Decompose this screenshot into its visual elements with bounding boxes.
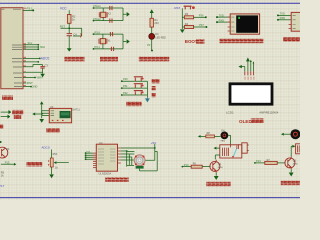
OLED SCL/SDA wires [245,61,254,72]
svg-text:BOOT: BOOT [185,39,198,44]
wire RV1 to ground [51,167,53,174]
wire: U1 RST pin [23,81,33,85]
capacitor C2 on rail [110,19,112,23]
wire buzzer arrow left [284,133,291,135]
label 串口2接口（ (red) [283,37,300,42]
U2 left pin stubs [93,153,96,168]
button K1 [134,77,144,81]
svg-text:8050: 8050 [293,163,299,165]
wire Q3 emitter to ground [290,169,292,172]
wire group B: U1 pins with net label (blue) [23,57,50,63]
capacitor C5 on rail [110,32,112,36]
transistor Q3 [285,156,299,169]
svg-text:RXD: RXD [219,18,225,22]
LED D1 [149,32,166,39]
capacitor C1 on rail [110,6,112,10]
svg-text:R3: R3 [185,12,189,16]
U1 pin numbers (red) [24,8,26,85]
fan branch: left arrow terminal [198,135,206,138]
sheet border top [0,3,300,4]
green dot at left edge [0,141,2,143]
virtual terminal 2 (right edge, cut) [289,12,304,31]
wire fan to relay contact [228,135,230,145]
svg-text:R4: R4 [185,22,189,26]
svg-text:LCD1: LCD1 [226,110,234,114]
label 独立按键 (red) [126,102,142,106]
node RST rail [60,24,82,36]
potentiometer RV1 [48,152,69,170]
wire R2 to RST rail [68,23,70,28]
ground (reset) [68,47,70,48]
OLED power arrow up [247,61,249,71]
microcontroller U1 [1,8,23,89]
OLED pin numbers (red) [244,77,254,79]
arrow to off-sheet 接下图 [1,110,24,114]
svg-text:AMPIRE128X64: AMPIRE128X64 [259,110,278,114]
capacitor C6 on rail [111,47,113,51]
svg-text:X2: X2 [108,12,112,16]
stepper motor M1 [134,155,145,166]
wire RXD to terminal 2 [277,16,291,21]
svg-text:VCC: VCC [60,7,67,11]
svg-text:240: 240 [154,21,159,25]
label 温湿度模块 (red) [46,128,60,132]
svg-text:P36: P36 [199,14,204,18]
svg-text:RV1: RV1 [53,152,59,156]
resistor R3 [184,12,193,19]
power arrow (relay 2 coil) [292,145,295,148]
wire P13 to base resistor [182,163,192,168]
crystal X2 [99,8,111,21]
power arrow (LED) [151,13,153,19]
svg-text:DHT11: DHT11 [72,108,80,111]
DHT11 wire bus [42,111,49,118]
wire Q1 base arrow [1,160,16,165]
relay RL2 (cut at edge) [296,144,302,154]
svg-text:TXD: TXD [280,12,285,16]
wire relay coil to Q2 collector [215,155,220,159]
svg-text:OLED: OLED [239,119,252,124]
label 四相步进电机 (red) [105,177,129,181]
resistor R6 [191,163,202,169]
svg-text:SCL: SCL [28,42,33,45]
resistor R4 [182,22,193,29]
U2 right pin stubs [118,148,121,163]
fan motor (black) [221,130,229,143]
svg-text:FAN: FAN [221,140,226,143]
svg-text:P2: P2 [147,43,151,47]
OLED pin stubs [245,71,254,75]
svg-text:P13: P13 [184,163,189,167]
svg-text:TXD: TXD [219,13,224,17]
label 复位电路 (red) [65,57,85,62]
wire key bus to ground [146,81,148,97]
DHT11 module U3 [49,105,80,123]
resistor R2 [67,14,75,23]
wire: U1 lower pins [23,76,43,89]
U2 input wires with labels [85,151,93,160]
wire TXD to terminal 2 [277,12,291,17]
stepper wiring loops [121,144,157,171]
virtual terminal 1 (serial, phone sim) [228,14,260,34]
crystal circuit 1 [93,4,127,21]
svg-text:+5V: +5V [151,141,156,145]
svg-text:P14: P14 [256,159,261,163]
svg-text:RST: RST [174,6,180,10]
OLED display LCD1 [229,82,274,105]
svg-text:P42: P42 [123,91,128,95]
button K3 [134,91,144,95]
transistor Q1 (fan speed, left edge) [0,147,10,158]
label 晶振电路 (red) [100,57,118,62]
svg-text:ULN2003A: ULN2003A [99,172,112,176]
wire R4 to P37 [194,23,208,28]
relay contact box [242,143,249,153]
wire TXD to terminal 1 [216,13,230,18]
svg-text:RST: RST [60,24,66,28]
wire: U1 top pin to net label [23,7,34,12]
label 减 (red) [151,93,155,97]
svg-text:C3: C3 [45,63,49,67]
svg-text:RXD: RXD [280,16,286,20]
wire VCC to R2 [68,10,70,14]
ground (DHT11) [39,119,44,123]
OLED left arrow (GND net) [242,66,245,68]
svg-text:VBAT: VBAT [36,76,43,80]
independent keys: key 3 row [121,91,148,96]
wire RXD to terminal 1 [216,18,230,23]
resistor R7 [265,159,277,165]
svg-text:P40: P40 [123,77,128,81]
independent keys: key 2 row [121,84,148,89]
crystal circuit 2 [93,30,127,49]
ground (Q2) [214,176,219,180]
ground (keys) [146,97,148,98]
label 主芯片 (red) [2,96,13,100]
label 串口1接口（模拟手机端） (red) [219,39,263,43]
wire D1 cathode down [147,39,153,51]
label 设置 (red) [151,79,159,83]
label 继电器(风扇) (red) [206,182,231,186]
svg-text:ADC0: ADC0 [41,57,50,61]
ground under C3 [42,72,44,74]
stepper motor base [136,166,144,169]
push button BOOT [184,6,195,9]
svg-text:P3.1: P3.1 [95,45,101,49]
red text fragment at left edge [0,125,3,129]
wire Q2 emitter to ground [215,173,217,176]
label 风速调节 (red) [26,162,42,166]
wire R3 to P36 [194,14,207,19]
DHT11 power arrow up [41,104,43,114]
sheet border bottom [0,197,300,198]
buzzer (black, right edge) [290,129,300,139]
independent keys: key 1 row [121,77,148,82]
node ADC0 (blue label) [42,146,52,158]
svg-text:C4: C4 [73,32,77,36]
label 加 (red) [151,86,155,90]
label 程序运行指示灯 (red) [139,57,170,62]
svg-text:P17: P17 [0,184,5,188]
svg-text:SDA: SDA [40,46,45,49]
resistor R1 [150,18,159,27]
resistor R8 [206,132,215,138]
wire group A: U1 pins P1 [23,42,45,50]
wire Q3 collector to relay 2 [291,146,295,156]
ground (RV1) [49,174,54,178]
svg-text:P41: P41 [123,84,128,88]
crystal X1 [99,34,111,49]
capacitor C3 loop on U1 pin [23,63,48,72]
ground (Q3) [289,173,294,177]
arrow to off-sheet 接上图 [1,115,22,119]
label 继电器(加湿) (red) [281,181,301,185]
svg-text:Q1: Q1 [6,147,10,151]
svg-text:RST: RST [27,81,33,85]
wire P14 to base resistor (relay 2) [254,159,265,164]
wire R6 to Q2 base [202,166,210,168]
power arrow (relay 1 coil) [216,147,220,149]
svg-text:8050: 8050 [218,167,224,169]
ground sideways (crystal 2) [127,39,130,44]
wire R7 to Q3 base [277,162,285,164]
ground sideways (crystal 1) [127,12,130,17]
svg-text:P37: P37 [199,23,204,27]
wire C4 to ground [68,36,70,47]
relay RL1 [220,144,242,158]
svg-text:LED-RED: LED-RED [155,36,166,39]
svg-text:P15: P15 [5,160,10,164]
label OLED显示屏 (red) [239,118,263,123]
capacitor C4 [67,32,82,37]
stepper driver U2 (ULN2003) [96,141,117,176]
label BOOT按键 (red) [185,39,205,44]
DHT11 left arrow [35,113,43,115]
svg-text:ADC0: ADC0 [42,146,50,150]
wire R1 to D1 [151,27,153,33]
button K2 [134,84,144,88]
wire R8 to fan [215,135,221,137]
wire button left leg down [182,8,184,29]
transistor Q2 [210,160,224,173]
svg-text:X1: X1 [107,38,111,42]
svg-text:P3.1: P3.1 [27,7,34,11]
